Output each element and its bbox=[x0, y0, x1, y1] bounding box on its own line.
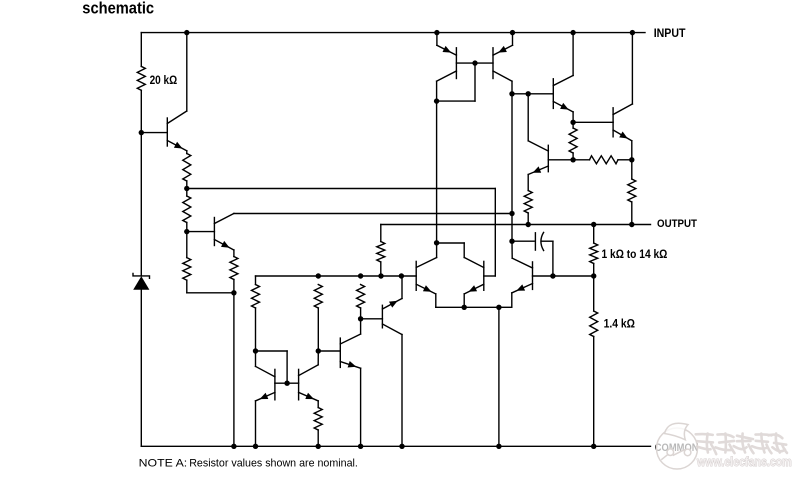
label OUTPUT bbox=[657, 218, 697, 230]
node mirror-left-col bbox=[253, 348, 258, 353]
resistor R7 bbox=[314, 285, 322, 308]
transistor Q1 bbox=[167, 111, 187, 151]
wire D1e node to R11 bbox=[572, 122, 574, 160]
transistor Q11 (PNP left) bbox=[437, 45, 457, 81]
wire R16 links bbox=[631, 160, 633, 225]
label R14 bbox=[602, 248, 668, 261]
node Q1-base bbox=[139, 130, 144, 135]
svg-text:schematic: schematic bbox=[82, 0, 154, 17]
wire D2 collector up bbox=[631, 33, 633, 104]
label R1 20 kOhm bbox=[150, 74, 178, 87]
watermark logo circle bbox=[657, 423, 698, 469]
transistor Q2 bbox=[214, 214, 234, 251]
wire Q6 collector up bbox=[527, 94, 529, 141]
wire Q8 emitter to R10 bbox=[317, 401, 319, 408]
wire R15 top bbox=[593, 276, 595, 311]
wire R7 down bbox=[317, 308, 319, 351]
node input-Q12 bbox=[510, 30, 515, 35]
wire node to R3 bbox=[186, 189, 188, 197]
svg-text:OUTPUT: OUTPUT bbox=[657, 218, 697, 230]
node input-D1 bbox=[570, 30, 575, 35]
node common-4 bbox=[358, 444, 363, 449]
svg-text:Resistor values shown are nomi: Resistor values shown are nominal. bbox=[189, 458, 358, 470]
resistor R15 (1.4k) bbox=[590, 311, 598, 336]
zener diode D3 bbox=[133, 274, 150, 290]
label COMMON bbox=[655, 442, 699, 454]
wire bottom rail (COMMON) bbox=[141, 445, 650, 447]
resistor R16 (D2 emitter) bbox=[628, 179, 636, 202]
transistor Q8 (mirror right) bbox=[299, 365, 319, 401]
resistor R13 bbox=[524, 191, 532, 213]
wire R5 elbow to junction bbox=[187, 280, 234, 293]
node mirror-bases bbox=[284, 381, 289, 386]
capacitor C1 bbox=[512, 232, 553, 276]
svg-text:20 kΩ: 20 kΩ bbox=[150, 74, 178, 87]
wire D1 emitter down bbox=[572, 112, 574, 122]
wire center vertical x512 bbox=[511, 94, 513, 241]
node midrail-R8 bbox=[358, 273, 363, 278]
node input-Q11 bbox=[434, 30, 439, 35]
wire R3 to Q2 base node bbox=[186, 223, 188, 232]
transistor Q9 (diff left) bbox=[416, 258, 436, 294]
transistor D2 (output) bbox=[613, 104, 632, 141]
wire R2 to node bbox=[186, 181, 188, 189]
wire D1 collector up bbox=[572, 33, 574, 76]
node Q2-base bbox=[184, 229, 189, 234]
node common-5 bbox=[399, 444, 404, 449]
wire R14 bottom bbox=[593, 264, 595, 277]
wire Q11 collector loop bbox=[437, 63, 475, 101]
transistor Q12 (PNP right) bbox=[493, 45, 513, 81]
transistor Q10 (diff right) bbox=[464, 258, 484, 294]
wire R8 down bbox=[360, 308, 362, 319]
wire INPUT rail bbox=[141, 32, 645, 34]
node divider-mid bbox=[591, 273, 596, 278]
node pnp-bases bbox=[472, 60, 477, 65]
wire Q8 collector up bbox=[317, 351, 319, 365]
svg-text:NOTE A:: NOTE A: bbox=[139, 458, 188, 470]
wire diff collector bridge bbox=[437, 243, 465, 258]
resistor R10 bbox=[314, 408, 322, 431]
node common-3 bbox=[316, 444, 321, 449]
node D1-base-tap bbox=[526, 91, 531, 96]
node midrail-R9 bbox=[378, 273, 383, 278]
node wireA end bbox=[509, 211, 514, 216]
resistor R11 bbox=[569, 128, 577, 153]
wire Q5 collector up bbox=[511, 241, 513, 258]
wire R13 to output rail bbox=[527, 213, 529, 225]
wire Q2 emitter to R4 bbox=[233, 250, 235, 257]
wire R9 to midrail bbox=[380, 262, 382, 276]
wire R14 top bbox=[593, 225, 595, 244]
node midrail-Q4e bbox=[399, 273, 404, 278]
node common-6 bbox=[496, 444, 501, 449]
wire Q3 emitter down bbox=[360, 368, 362, 446]
wire PNP bases bbox=[456, 62, 493, 64]
note text bbox=[139, 458, 358, 470]
node common-2 bbox=[253, 444, 258, 449]
wire emitters down to common bbox=[498, 307, 500, 446]
wire Q11 emitter from input bbox=[436, 33, 438, 46]
node Q12-col bbox=[509, 91, 514, 96]
wire A from Q2 collector bbox=[234, 213, 512, 215]
wire Q4 emitter up to midrail bbox=[400, 276, 403, 299]
node D1-emitter bbox=[570, 120, 575, 125]
transistor Q4 (inverted) bbox=[382, 299, 402, 335]
node Q11-col bbox=[434, 98, 439, 103]
resistor R6 bbox=[252, 285, 260, 308]
wire Q9 collector up bbox=[436, 243, 438, 258]
svg-text:1 kΩ to 14 kΩ: 1 kΩ to 14 kΩ bbox=[602, 248, 668, 261]
wire R4 to node bbox=[233, 280, 235, 293]
wire Q6 base bbox=[548, 159, 573, 161]
resistor R3 bbox=[183, 196, 191, 223]
svg-text:www.elecfans.com: www.elecfans.com bbox=[696, 455, 792, 469]
transistor D1 (driver) bbox=[553, 76, 573, 112]
node mirror-right-col bbox=[316, 348, 321, 353]
node common-1 bbox=[231, 444, 236, 449]
resistor R5 bbox=[183, 258, 191, 281]
node Q5-base-cap bbox=[550, 273, 555, 278]
wire R15 down to common bbox=[593, 337, 595, 447]
svg-text:1.4 kΩ: 1.4 kΩ bbox=[604, 318, 635, 331]
wire mid rail bbox=[256, 276, 417, 285]
wire Q4 base bbox=[361, 318, 383, 320]
wire Q7 collector up bbox=[255, 351, 257, 366]
node D2-emitter bbox=[629, 157, 634, 162]
wire Q5 emitter path bbox=[499, 293, 512, 307]
node output-R16 bbox=[629, 222, 634, 227]
wire B long horizontal to diff-pair right base bbox=[187, 189, 496, 277]
wire Q6 emitter to R13 bbox=[527, 175, 529, 191]
svg-text:INPUT: INPUT bbox=[654, 26, 686, 40]
resistor R2 bbox=[183, 154, 191, 181]
resistor R14 (1k to 14k) bbox=[590, 243, 598, 264]
wire Q1 base bbox=[141, 132, 167, 134]
node input-top-left bbox=[184, 30, 189, 35]
wire Q5 base to divider bbox=[533, 275, 594, 277]
wire Q4 collector down bbox=[401, 335, 403, 447]
resistor R4 bbox=[230, 257, 238, 280]
wire Q1 collector vertical bbox=[186, 33, 188, 111]
wire Q12 collector down bbox=[511, 81, 513, 94]
wire R10 down bbox=[317, 430, 319, 446]
wire Q2 base bbox=[187, 231, 215, 233]
wire left vertical (input side) bbox=[140, 33, 142, 447]
wire Q12 emitter from input bbox=[512, 33, 514, 46]
wire Q3 base bbox=[318, 350, 340, 352]
wire OUTPUT rail bbox=[381, 225, 651, 242]
transistor Q7 (mirror left) bbox=[256, 366, 275, 401]
wire Q3 collector up bbox=[360, 319, 362, 334]
node emitters-right bbox=[496, 305, 501, 310]
label R15 bbox=[604, 318, 635, 331]
wire Q7 emitter down bbox=[255, 401, 257, 446]
label INPUT bbox=[654, 26, 686, 40]
wire diff emitters rail bbox=[436, 294, 499, 307]
node wireB bbox=[184, 186, 189, 191]
wire D2 emitter down bbox=[631, 141, 633, 160]
transistor Q6 (current limit) bbox=[528, 141, 548, 175]
node diff-emitters bbox=[462, 305, 467, 310]
node Q4-base bbox=[358, 316, 363, 321]
node output-R14 bbox=[591, 222, 596, 227]
wire Q1 emitter to R2 bbox=[186, 151, 188, 154]
resistor R12 (horizontal) bbox=[573, 156, 632, 164]
resistor R9 (from OUTPUT) bbox=[377, 242, 385, 263]
node cap-left bbox=[509, 239, 514, 244]
wire R6 down bbox=[255, 308, 257, 351]
node R4-R5 junction bbox=[231, 290, 236, 295]
wire junction down to common bbox=[233, 293, 235, 447]
node diff-collectors bbox=[434, 240, 439, 245]
resistor R1 20k bbox=[137, 66, 145, 90]
node R11-bottom bbox=[570, 157, 575, 162]
node output-R13 bbox=[526, 222, 531, 227]
node common-7 bbox=[591, 444, 596, 449]
wire mirror bases tie bbox=[256, 351, 299, 383]
watermark chinese characters (stylized strokes) bbox=[696, 434, 787, 455]
wire R5 chain from Q2 base node bbox=[186, 232, 188, 258]
resistor R8 bbox=[357, 285, 365, 308]
node midrail-R7 bbox=[316, 273, 321, 278]
wire center vertical to PNP mirror bbox=[436, 101, 438, 243]
transistor Q5 bbox=[512, 258, 533, 293]
wire Q12 col to D1 base bbox=[512, 93, 553, 95]
transistor Q3 bbox=[340, 334, 360, 368]
wire D2 base bbox=[573, 121, 613, 123]
node input-D2 bbox=[630, 30, 635, 35]
